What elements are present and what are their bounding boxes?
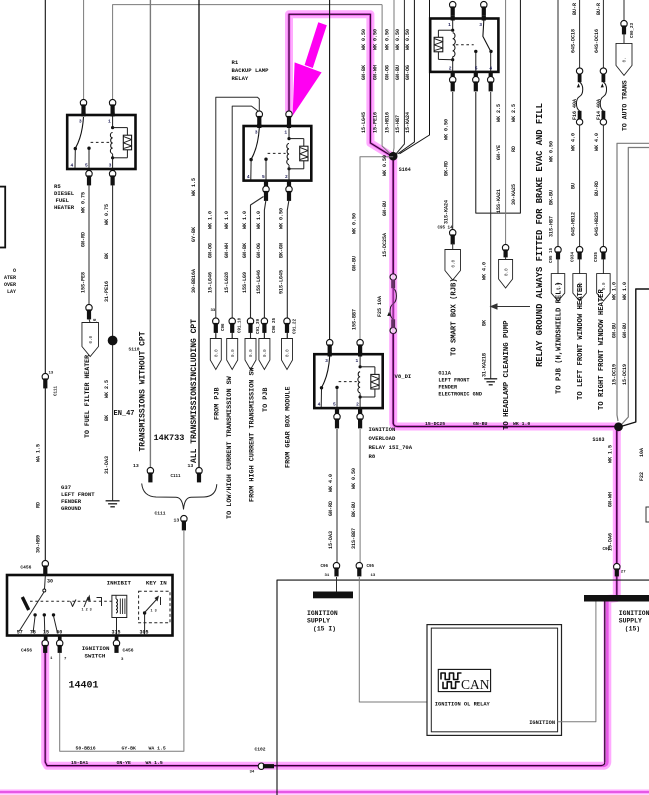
svg-text:GN-BU: GN-BU [611,323,617,338]
svg-text:GN-OG: GN-OG [405,65,411,80]
svg-text:C111: C111 [55,385,59,396]
svg-text:IGNITION OL RELAY: IGNITION OL RELAY [435,702,491,708]
svg-text:GN-BU: GN-BU [382,201,388,216]
svg-text:GN-RD: GN-RD [328,501,334,516]
svg-text:WK 2.5: WK 2.5 [104,380,110,398]
C111 pin 13 left terminal [147,467,153,474]
wire pin5 to 30-KA25 [476,0,521,213]
svg-text:30: 30 [47,579,53,585]
svg-text:LEFT FRONT: LEFT FRONT [438,378,469,384]
svg-text:WK 4.0: WK 4.0 [594,133,600,151]
svg-text:BK-RD: BK-RD [444,161,450,176]
svg-text:34: 34 [250,771,255,775]
inhibit relay coil [116,599,117,613]
svg-text:15-LG28: 15-LG28 [224,272,230,293]
svg-text:64S-DC16: 64S-DC16 [594,29,600,53]
svg-text:GN-BU: GN-BU [622,323,628,338]
stub pin15 [44,636,48,642]
svg-text:RD: RD [511,146,517,152]
flag to fuel filter heater [89,319,90,323]
ignition switch dashed common [30,600,112,602]
svg-text:31-PE16: 31-PE16 [104,281,110,302]
wire below F25 to corner (highlighted core) [392,334,394,425]
svg-text:WK 0.50: WK 0.50 [382,155,388,176]
svg-text:BK-GN: BK-GN [279,243,285,258]
ignition switch box [7,575,173,636]
svg-text:15S-BB7: 15S-BB7 [351,309,357,330]
svg-text:BK: BK [481,320,487,326]
top-right relay pin5 bottom terminal [474,71,478,79]
wire 31S-HB7 BK-BU [557,0,559,247]
svg-text:2: 2 [356,402,359,408]
wire 15S-KA21 GN-YE [505,0,507,245]
svg-text:ELECTRONIC GND: ELECTRONIC GND [438,392,482,398]
svg-text:WK 2.5: WK 2.5 [511,104,517,122]
svg-text:WK 4.0: WK 4.0 [481,262,487,280]
svg-text:IGNITION: IGNITION [307,610,338,617]
svg-text:RELAY GROUND ALWAYS FITTED FOR: RELAY GROUND ALWAYS FITTED FOR BRAKE EVA… [535,103,545,367]
svg-text:C91_22: C91_22 [294,318,298,334]
svg-text:(15): (15) [625,626,640,633]
wire 15S-LG46 to R1 pin5 [264,201,265,339]
svg-text:WK 0.50: WK 0.50 [351,468,357,489]
svg-text:C96 25: C96 25 [273,317,277,333]
svg-text:BACKUP LAMP: BACKUP LAMP [232,67,270,74]
svg-text:15-DC25: 15-DC25 [425,421,445,427]
svg-text:TO AUTO TRANS: TO AUTO TRANS [622,80,629,131]
svg-text:4: 4 [71,162,74,168]
svg-text:0.0: 0.0 [286,349,291,357]
svg-text:WK 1.0: WK 1.0 [513,421,530,427]
svg-text:BK: BK [104,253,110,259]
svg-text:(15 I): (15 I) [313,626,336,633]
fuse F16 40A [576,68,582,74]
svg-text:50-BB16: 50-BB16 [76,746,96,752]
svg-text:27: 27 [621,571,626,575]
svg-text:15-PE16: 15-PE16 [373,112,379,133]
junction box outline [277,580,649,795]
svg-text:1: 1 [356,358,359,364]
fuse F14 40A [600,68,606,74]
inhibit relay box [112,595,127,617]
svg-text:WA 1.5: WA 1.5 [146,760,163,766]
connector C91 6 [86,304,92,311]
svg-text:F16 40A: F16 40A [572,99,578,120]
svg-text:TO PJB: TO PJB [262,388,270,412]
wire IGNITION from CAN box to 15 bus [558,602,596,722]
svg-text:F14 40A: F14 40A [596,99,602,120]
svg-text:V8_DI: V8_DI [395,373,412,380]
svg-text:SUPPLY: SUPPLY [307,618,330,625]
svg-text:C935: C935 [595,251,599,262]
svg-text:FROM PJB: FROM PJB [213,387,221,420]
R1 pin5 bottom terminal [264,180,268,189]
svg-text:1: 1 [448,22,451,28]
svg-text:31S-HB7: 31S-HB7 [549,216,555,237]
stub wires terminals to flags [215,334,217,339]
svg-text:75: 75 [30,630,36,636]
svg-text:WK 0.50: WK 0.50 [395,29,401,50]
svg-text:305: 305 [140,630,149,636]
svg-text:64S-HB12: 64S-HB12 [570,212,576,236]
svg-text:GN-YE: GN-YE [117,760,132,766]
svg-text:0.0: 0.0 [89,335,94,343]
svg-text:64S-HB25: 64S-HB25 [594,212,600,236]
svg-text:WK 4.0: WK 4.0 [328,474,334,492]
svg-text:WK 4.0: WK 4.0 [570,133,576,151]
svg-text:31-KA21B: 31-KA21B [481,353,487,377]
flag to left front window heater [573,274,587,302]
svg-text:TO RIGHT FRONT WINDOW HEATER: TO RIGHT FRONT WINDOW HEATER [598,289,606,410]
wire 15-HB7 [396,0,405,155]
svg-text:31-DA3: 31-DA3 [104,456,110,474]
svg-text:IGNITION: IGNITION [619,610,649,617]
R1 pin3 terminal [256,111,262,118]
svg-text:WA 1.5: WA 1.5 [149,746,166,752]
CAN module outer box [427,625,562,736]
wire 15S-LG9 to R1 pin5 [251,197,264,339]
svg-text:WK 1.5: WK 1.5 [608,445,614,463]
R1 pin2 bottom terminal [287,180,291,189]
wire to R5 pin 2 [83,0,85,104]
svg-text:1: 1 [108,119,111,125]
svg-text:3: 3 [79,119,82,125]
bus bar IGNITION SUPPLY (15 I) [313,592,353,599]
svg-text:FENDER: FENDER [61,498,82,505]
wire to C90_23 [623,0,625,21]
ignition switch detent contact [71,600,77,607]
top-right relay pin2 bottom terminal [451,71,455,79]
svg-text:F25 10A: F25 10A [377,296,383,317]
svg-text:C456: C456 [21,648,32,654]
svg-text:1 3: 1 3 [151,610,157,614]
wire 31-PE16 BK from R5 pin 3 [112,185,114,501]
flag low/high current transmission sw [227,339,238,370]
svg-text:5: 5 [475,65,478,71]
svg-text:GN-BU: GN-BU [395,65,401,80]
flag to PJB windshield [551,274,565,302]
svg-text:GN-OG: GN-OG [256,243,262,258]
svg-text:5: 5 [262,174,265,180]
svg-text:GN-WH: GN-WH [224,243,230,258]
svg-text:SUPPLY: SUPPLY [619,618,642,625]
svg-text:15S-LG9: 15S-LG9 [242,272,248,293]
svg-text:LEFT FRONT: LEFT FRONT [61,491,95,498]
svg-text:31: 31 [325,574,330,578]
R8 pin1 terminal [357,339,363,346]
svg-text:WK 0.50: WK 0.50 [444,119,450,140]
flag to right front window heater [597,274,611,302]
svg-text:RELAY 15I_70A: RELAY 15I_70A [369,444,413,451]
svg-text:TO SMART BOX (RJB): TO SMART BOX (RJB) [450,278,458,356]
svg-text:DIESEL: DIESEL [54,190,75,197]
svg-text:WK 0.50: WK 0.50 [351,213,357,234]
svg-text:15-HB7: 15-HB7 [395,115,401,133]
svg-text:57: 57 [17,630,23,636]
wire 15S-PE8 GN-RD from R5 pin 5 [88,185,90,305]
wire from top right into S164 [400,0,430,154]
svg-text:GN-WH: GN-WH [373,65,379,80]
svg-text:IGNITION: IGNITION [369,426,396,433]
svg-text:O: O [13,268,16,274]
wire 15-PE16 [382,5,391,155]
CAN logo waveform [441,673,462,680]
svg-text:GROUND: GROUND [61,505,82,512]
svg-text:C934: C934 [571,251,575,262]
svg-text:WK 1.0: WK 1.0 [611,282,617,300]
svg-text:0.0: 0.0 [263,349,268,357]
svg-text:15-LG46: 15-LG46 [208,272,214,293]
svg-text:GN-RD: GN-RD [80,232,86,247]
wire TRANSMISSIONS WITHOUT CPT to C111-13 [149,0,151,468]
wire 15-DA6 GN-WH S163 to C96-27 (highlighted core) [616,431,618,564]
R8 pin5 bottom terminal [335,407,339,416]
svg-text:WK 0.50: WK 0.50 [373,29,379,50]
R8 pin3 terminal [327,339,333,346]
svg-text:C91_39: C91_39 [257,318,261,334]
wire 31-KA21B BK from pin 4 to ground [490,92,492,379]
svg-text:C102: C102 [255,747,266,753]
junction S110 [108,336,118,346]
svg-text:S164: S164 [399,167,411,173]
ground G37 [106,500,120,502]
wire S164 to overload relay pin 1 [360,157,393,341]
wire 15-DC19 GN-BU a [617,143,649,421]
svg-text:RELAY: RELAY [232,75,249,82]
svg-text:FROM HIGH CURRENT TRANSMISSION: FROM HIGH CURRENT TRANSMISSION SW [248,366,256,502]
wire 30-BB16A GY-BK to C111-13 [198,0,200,468]
svg-text:4: 4 [489,65,492,71]
bus bar IGNITION SUPPLY (15) [584,595,649,602]
svg-text:31S-BB7: 31S-BB7 [351,528,357,549]
svg-text:GN-OG: GN-OG [385,65,391,80]
svg-text:64S-DC18: 64S-DC18 [570,29,576,53]
svg-text:13: 13 [188,463,194,469]
wire 15-DA3 GN-RD from R8 pin 5 [336,429,338,565]
svg-text:C96: C96 [222,323,226,331]
flag from gear box module [282,339,293,370]
svg-text:C95: C95 [367,565,375,569]
R5 pin3 bottom terminal [111,168,115,173]
fuse F22 box edge [646,507,649,522]
svg-text:15-HB16: 15-HB16 [385,112,391,133]
svg-text:14K733: 14K733 [154,433,185,443]
svg-text:15S-LG46: 15S-LG46 [256,270,262,294]
wire to ignition overload relay pin 3 [329,0,331,341]
wire 15-DC25A below S164 (highlighted core) [392,160,394,274]
svg-text:0.0: 0.0 [504,268,509,276]
svg-text:LAY: LAY [7,289,16,295]
connector C111 pin 13 on 30-HB9 wire [42,373,48,380]
wire 31S-KA24 BK-RD from pin 2 [452,92,454,230]
ignition switch rotor arm [19,592,44,631]
svg-text:1: 1 [284,130,287,136]
svg-text:15: 15 [43,630,49,636]
C111 merged terminal [181,515,187,522]
svg-text:15-LG45: 15-LG45 [361,112,367,133]
top-right relay pin1 terminal [450,1,456,8]
svg-text:15-DC25A: 15-DC25A [382,233,388,257]
svg-text:F22: F22 [639,472,645,481]
wire 50-BB16 GY-BK from C111 to ignition switch pin 50 [60,530,184,751]
R8 pin2 bottom terminal [358,407,362,416]
relay R1 BACKUP LAMP RELAY [244,126,312,181]
svg-text:33: 33 [211,309,216,313]
magenta arrow pointing at R1 pin 1 [305,22,327,68]
wire 64S-HB25 BU-RD [602,125,604,247]
svg-text:2: 2 [285,174,288,180]
C111 pin 13 right terminal [196,467,202,474]
svg-text:C96: C96 [603,548,611,552]
svg-text:HEATER: HEATER [54,204,75,211]
svg-text:WK 0.50: WK 0.50 [279,208,285,229]
wire C96-31 to 15I bus [336,577,338,592]
svg-text:3: 3 [325,358,328,364]
flag to PJB [259,339,270,370]
R5 pin2 terminal [80,99,86,106]
svg-text:S163: S163 [593,437,605,443]
svg-text:15S-PE8: 15S-PE8 [80,272,86,293]
svg-text:30-BB16A: 30-BB16A [191,269,197,293]
svg-text:GN-BK: GN-BK [242,243,248,258]
top-right relay pin4 bottom terminal [489,71,493,79]
svg-text:WK 1.0: WK 1.0 [224,211,230,229]
CAN module inner box [431,628,557,732]
connector C90_23 [621,20,627,27]
svg-text:13: 13 [49,372,54,376]
wire 30-HB9 RD to ignition switch pin 30 [44,0,46,561]
svg-text:WK 0.50: WK 0.50 [549,141,555,162]
ignition switch contacts [33,613,36,616]
stub pin50 [58,636,62,642]
svg-text:WK 1.0: WK 1.0 [622,282,628,300]
svg-text:C456: C456 [20,565,31,571]
wire 15-DC19 GN-BU b [622,148,649,425]
svg-text:50: 50 [56,630,62,636]
svg-text:R1: R1 [232,59,239,66]
svg-text:13: 13 [133,463,139,469]
wire 15-KA24 [398,0,415,154]
svg-text:FROM GEAR BOX MODULE: FROM GEAR BOX MODULE [285,386,293,468]
R5 pin5 bottom terminal [87,168,91,173]
svg-text:BU-RD: BU-RD [594,181,600,196]
svg-text:WK 0.50: WK 0.50 [385,29,391,50]
svg-text:3: 3 [479,22,482,28]
svg-text:5: 5 [333,402,336,408]
svg-text:WK 1.0: WK 1.0 [208,211,214,229]
svg-text:BU: BU [570,183,576,189]
svg-text:R5: R5 [54,183,61,190]
svg-text:TO LOW/HIGH CURRENT TRANSMISSI: TO LOW/HIGH CURRENT TRANSMISSION SW [226,375,234,519]
svg-text:C95 15: C95 15 [550,247,554,263]
svg-text:31S-KA24: 31S-KA24 [444,200,450,224]
svg-text:BU-R: BU-R [596,3,602,15]
svg-text:IGNITION: IGNITION [82,645,110,652]
svg-text:C111: C111 [155,511,166,517]
svg-text:TO FUEL FILTER HEATER: TO FUEL FILTER HEATER [84,355,91,438]
svg-text:R8: R8 [369,453,376,460]
svg-text:C91_10: C91_10 [239,317,243,333]
wire 64S-HB12 BU [579,125,581,247]
svg-text:14401: 14401 [69,681,99,692]
svg-text:OVER: OVER [4,282,16,288]
svg-text:BU-R: BU-R [572,3,578,15]
svg-text:C90_23: C90_23 [631,22,635,38]
svg-text:WK 0.50: WK 0.50 [361,29,367,50]
svg-text:0.0: 0.0 [249,349,254,357]
flag to headlamp cleaning pump [505,257,507,260]
C456 pin 50 terminal [57,640,63,647]
svg-text:WK 0.75: WK 0.75 [80,192,86,213]
svg-text:OVERLOAD: OVERLOAD [369,435,396,442]
flag from PJB [210,339,221,370]
svg-text:10A: 10A [639,448,645,457]
svg-text:WK 1.5: WK 1.5 [191,178,197,196]
svg-text:GN-OG: GN-OG [208,243,214,258]
flag to smart box [452,243,454,250]
svg-text:IGNITION: IGNITION [529,720,555,726]
svg-text:C456: C456 [123,648,134,654]
stub pin315 [115,636,119,642]
svg-text:EN_47: EN_47 [114,410,135,418]
svg-text:KEY IN: KEY IN [146,580,167,587]
svg-text:TRANSMISSIONS WITHOUT CPT: TRANSMISSIONS WITHOUT CPT [138,331,147,451]
svg-text:ATER: ATER [4,275,16,281]
svg-text:15-DA1: 15-DA1 [71,760,88,766]
svg-text:13: 13 [371,574,376,578]
svg-text:WA 1.5: WA 1.5 [36,444,42,462]
wire from R5 pin 1 to top rail [113,5,383,104]
wire 64S-DC16 [602,0,604,68]
svg-text:315: 315 [112,630,121,636]
svg-text:WK 2.5: WK 2.5 [496,104,502,122]
svg-text:1 2 3: 1 2 3 [82,609,92,613]
svg-text:15-DC19: 15-DC19 [622,364,628,385]
svg-text:TO PJB (H,WINDSHIELD REL.): TO PJB (H,WINDSHIELD REL.) [556,282,564,394]
svg-text:G11A: G11A [438,371,451,377]
wire 64S-DC18 [579,0,581,68]
fuse F25 10A [390,274,396,280]
flag from high current transmission sw [245,339,256,370]
svg-text:0.0: 0.0 [602,282,607,290]
svg-text:FENDER: FENDER [438,385,458,391]
svg-text:0.: 0. [623,57,628,62]
svg-text:TO LEFT FRONT WINDOW HEATER: TO LEFT FRONT WINDOW HEATER [577,283,585,400]
svg-text:C96: C96 [321,565,329,569]
R1 pin1 terminal [286,111,292,118]
svg-text:0.0: 0.0 [215,349,220,357]
junction S163 [614,422,623,431]
svg-text:30-KA25: 30-KA25 [511,184,517,205]
svg-text:WK 1.0: WK 1.0 [256,211,262,229]
svg-text:4: 4 [318,402,321,408]
svg-text:2: 2 [449,65,452,71]
svg-text:C111: C111 [171,475,182,479]
wire from transmission sw flag to R1 pin3 [232,106,258,338]
key-in switch [143,611,146,614]
svg-text:0.0: 0.0 [451,259,456,267]
svg-text:15-DA3: 15-DA3 [328,531,334,549]
svg-text:WK 0.50: WK 0.50 [405,29,411,50]
svg-text:15S-KA21: 15S-KA21 [496,189,502,213]
wire right loop into S163 [623,289,649,426]
svg-text:BK: BK [104,415,110,421]
svg-text:5: 5 [85,162,88,168]
svg-text:FUEL: FUEL [56,197,70,204]
relay (ignition) top right [430,19,498,72]
svg-text:0.0: 0.0 [231,349,236,357]
svg-text:GN-BU: GN-BU [473,421,488,427]
